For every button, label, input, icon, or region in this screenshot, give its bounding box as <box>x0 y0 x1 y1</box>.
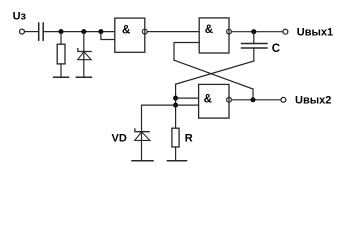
wire U2 output to terminal Uвых1 <box>232 31 283 33</box>
svg-text:R: R <box>185 133 193 145</box>
node Uвых1 output terminal <box>283 29 288 34</box>
node junction dot C (gate input tie) <box>98 29 103 34</box>
diode VD1 (zener) cathode bar <box>78 49 91 52</box>
wire dot E to U3 upper input <box>176 97 199 99</box>
svg-text:VD: VD <box>112 133 127 145</box>
op-amp U3 NAND gate body <box>199 84 229 118</box>
op-amp U2 NAND gate body <box>199 18 229 53</box>
capacitor C1 (coupling) <box>38 23 40 40</box>
node Uвых2 output terminal <box>281 97 286 102</box>
wire dot F left to diode VD <box>142 105 176 131</box>
svg-text:Uвых2: Uвых2 <box>295 95 331 107</box>
wire capacitor C down <box>253 48 255 61</box>
svg-text:Uвых1: Uвых1 <box>297 26 333 38</box>
svg-text:&: & <box>205 24 213 36</box>
pin U2 output inversion bubble <box>227 29 232 34</box>
wire vertical up to U2 lower input <box>174 43 199 61</box>
svg-text:Uз: Uз <box>13 11 27 23</box>
wire vertical into U3 inputs <box>175 84 177 128</box>
node Uз input terminal <box>20 29 25 34</box>
wire U3 output to terminal Uвых2 <box>232 99 281 101</box>
wire input terminal to capacitor C1 <box>25 31 38 33</box>
pin U1 output inversion bubble <box>142 29 147 34</box>
wire resistor R1 to ground <box>60 64 62 77</box>
wire diagonal B : C to U3 inputs <box>176 61 254 84</box>
wire dot B down through diode VD1 to ground <box>83 32 85 78</box>
resistor R1 <box>57 44 65 64</box>
svg-text:C: C <box>272 43 280 55</box>
node junction dot A (resistor branch) <box>59 29 64 34</box>
wire dot D down to capacitor C <box>253 32 255 44</box>
wire dot F to U3 lower input <box>176 104 199 106</box>
diode VD (zener) cathode bar <box>135 129 149 132</box>
node junction dot F (U3 lower input) <box>173 103 178 108</box>
resistor R <box>172 128 179 147</box>
ground (under R1) <box>54 76 69 78</box>
node junction dot E (U3 upper input) <box>173 96 178 101</box>
wire dot C to gate U1 lower input <box>101 32 115 40</box>
pin U3 output inversion bubble <box>227 97 232 102</box>
node junction dot D (capacitor C tap) <box>251 29 256 34</box>
node junction dot B (diode branch) <box>81 29 86 34</box>
ground (under VD) <box>132 160 153 162</box>
wire U1 output to U2 input <box>148 31 200 33</box>
wire diode VD to ground <box>141 132 143 161</box>
diode VD1 triangle <box>78 52 92 60</box>
capacitor C top plate <box>242 43 268 45</box>
op-amp U1 NAND gate body <box>115 18 145 52</box>
wire resistor R to ground <box>175 147 177 161</box>
wire capacitor C1 to gate U1 input <box>44 31 115 33</box>
wire dot A down to resistor R1 <box>60 32 62 45</box>
capacitor C bottom plate <box>242 47 268 49</box>
svg-text:&: & <box>122 24 130 36</box>
ground (under R) <box>168 160 187 162</box>
node junction dot G (feedback tap) <box>251 97 256 102</box>
wire feedback vertical up from dot G <box>252 89 254 100</box>
svg-text:&: & <box>204 94 212 106</box>
ground (under VD1) <box>76 76 91 78</box>
wire diagonal A : U3 output to U2 lower input <box>174 60 253 89</box>
diode VD triangle <box>135 132 150 141</box>
